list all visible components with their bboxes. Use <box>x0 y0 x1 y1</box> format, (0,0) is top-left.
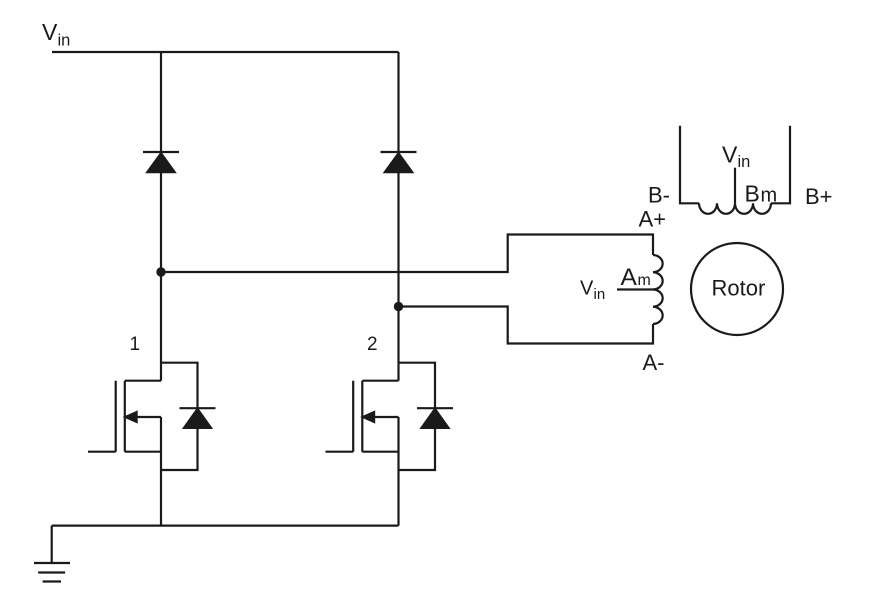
wire Q1 body-diode branch <box>161 363 198 470</box>
diode Q2 body diode <box>417 408 453 428</box>
wire A winding center tap <box>617 288 653 290</box>
node junction dot phase A+ <box>156 267 165 276</box>
node Vin label <box>42 19 70 50</box>
svg-text:in: in <box>738 153 751 171</box>
node Vin label at B tap <box>722 142 750 172</box>
svg-text:in: in <box>58 32 71 50</box>
svg-text:m: m <box>761 185 778 207</box>
wire Q1 source to bottom rail <box>160 417 162 526</box>
wire B winding left terminal <box>680 126 699 204</box>
svg-text:V: V <box>722 142 738 168</box>
svg-text:B-: B- <box>648 183 670 208</box>
svg-text:V: V <box>580 278 594 300</box>
svg-text:A: A <box>621 264 638 291</box>
node Vin label at A tap <box>580 278 605 304</box>
svg-text:V: V <box>42 19 58 45</box>
node Am label <box>621 264 651 291</box>
wire B winding center tap <box>734 168 736 204</box>
svg-text:2: 2 <box>367 334 378 355</box>
inductor B winding coil <box>699 203 771 214</box>
wire bottom rail <box>52 524 399 526</box>
svg-text:A+: A+ <box>639 207 667 232</box>
node Bm label <box>745 181 778 207</box>
wire left upper vertical <box>160 52 162 381</box>
svg-text:m: m <box>638 272 651 289</box>
svg-text:A-: A- <box>643 350 665 375</box>
transistor Q2 MOSFET <box>326 381 399 452</box>
diode Q1 body diode <box>180 408 216 428</box>
diode D2 <box>381 152 417 172</box>
svg-text:B+: B+ <box>805 184 833 209</box>
wire Q2 source to bottom rail <box>397 417 399 526</box>
svg-text:in: in <box>594 286 606 303</box>
wire B winding right terminal <box>771 126 790 204</box>
inductor A winding coil <box>653 255 663 324</box>
wire top Vin rail <box>52 51 399 53</box>
ground <box>34 526 70 582</box>
rotor circle <box>691 243 783 335</box>
diode D1 <box>143 152 179 172</box>
wire right upper vertical <box>397 52 399 381</box>
wire Q2 body-diode branch <box>399 363 436 470</box>
svg-text:Rotor: Rotor <box>712 276 766 301</box>
svg-text:1: 1 <box>130 334 141 355</box>
wire A+ from half-bridge 1 to winding <box>161 235 653 273</box>
svg-text:B: B <box>745 181 760 207</box>
node junction dot phase A- <box>394 302 403 311</box>
wire A- from half-bridge 2 to winding <box>399 307 654 344</box>
transistor Q1 MOSFET <box>88 381 161 452</box>
